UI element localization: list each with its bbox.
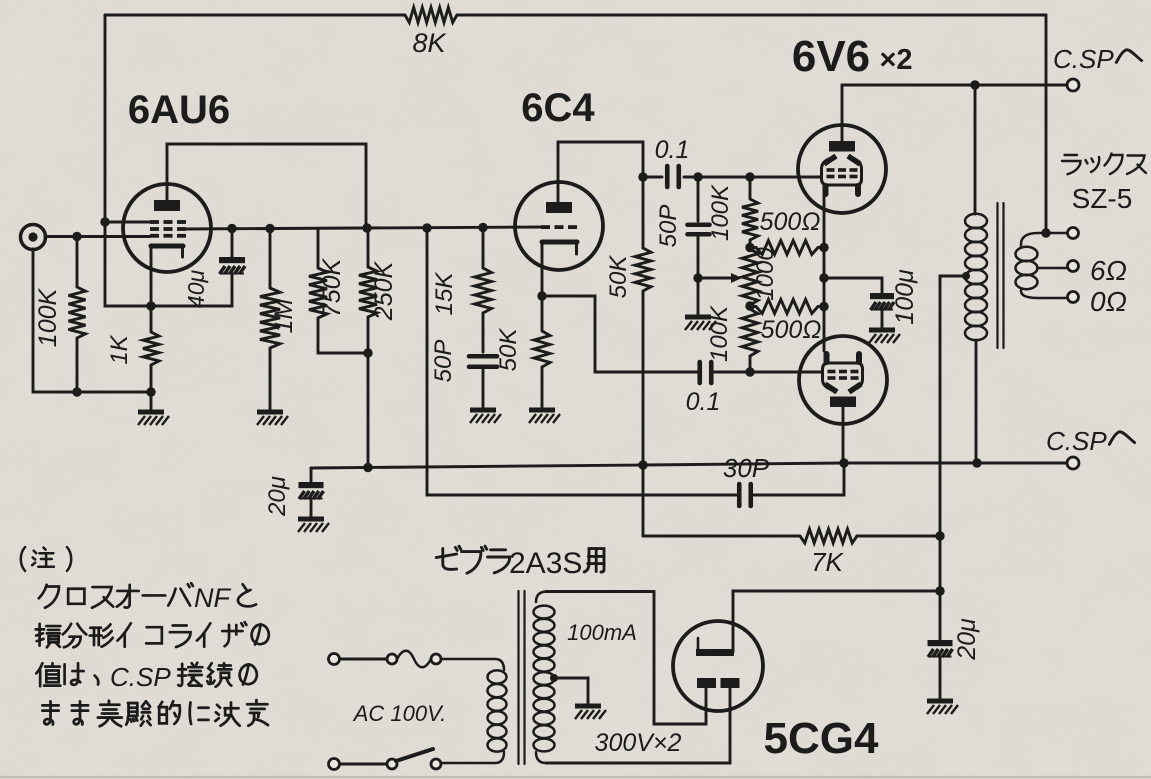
OPT secondary winding — [1016, 233, 1069, 298]
junction cathode/1K/feedback — [146, 301, 155, 310]
terminal AC bottom — [329, 759, 340, 770]
capacitor 50P grid — [688, 177, 710, 278]
label 6AU6 — [128, 88, 230, 132]
capacitor 40u cathode bypass — [219, 228, 245, 274]
tube 6V6 lower V4 envelope — [799, 336, 887, 424]
junction 0.1 branch at 6C4 plate — [638, 172, 647, 181]
junction 15K top on bus — [478, 223, 487, 232]
capacitor 0.1 lower coupling — [700, 362, 821, 383]
ground below center tap — [575, 706, 606, 719]
junction NF divider on bus — [422, 223, 431, 232]
svg-text:1M: 1M — [270, 298, 298, 333]
terminal AC top — [329, 654, 340, 665]
label 100K upper — [707, 184, 734, 241]
wire 6AU6 plate loop up and over — [167, 144, 366, 228]
ground below 20u right — [927, 701, 958, 714]
wire B+ supply line left segment with 20u — [311, 463, 1067, 468]
label 6ohm — [1090, 255, 1127, 286]
ground below 50P — [470, 410, 501, 423]
svg-text:2A3S: 2A3S — [509, 547, 582, 580]
label zebra 2A3S-you — [436, 546, 604, 580]
svg-text:100K: 100K — [706, 305, 733, 362]
resistor 15K — [475, 228, 492, 353]
junction B+ / rectifier output — [935, 586, 944, 595]
junction 100K/500ohm/pot upper node — [745, 243, 754, 252]
capacitor 50P below 15K — [469, 356, 497, 408]
label 50P grid — [655, 205, 682, 248]
svg-text:15K: 15K — [431, 272, 458, 316]
svg-text:7K: 7K — [811, 547, 844, 577]
wire cathode output to lower coupling cap — [542, 296, 698, 372]
label 6C4 — [521, 86, 595, 130]
note line 3 atai wa C.SP setsuzoku no — [36, 662, 257, 692]
svg-text:500Ω: 500Ω — [760, 208, 821, 236]
note line 1 kurosuoba NF to — [39, 583, 256, 613]
label 30P — [723, 453, 770, 483]
junction 6C4 cathode — [537, 291, 546, 300]
svg-text:50P: 50P — [430, 340, 457, 383]
capacitor 30P — [739, 463, 844, 506]
input jack J1 — [21, 225, 46, 250]
PT primary winding — [441, 659, 507, 763]
terminal secondary 6ohm — [1068, 261, 1079, 272]
wire 6V6 upper plate to top — [841, 85, 844, 141]
label 15K — [431, 272, 458, 316]
tube 6V6 upper V3 envelope — [798, 125, 886, 213]
junction input/100K — [72, 232, 81, 241]
wire 5CG4 cathode to B+ — [733, 591, 940, 652]
6AU6 cathode — [151, 246, 183, 257]
capacitor 20u filter right — [928, 640, 953, 699]
tube 6AU6 V1 envelope — [123, 184, 211, 272]
wire main bus 6AU6 to 6C4 grid — [184, 227, 541, 229]
resistor 7K — [643, 529, 940, 543]
resistor 750K — [309, 229, 368, 354]
junction 7K at B+ vertical — [935, 531, 944, 540]
svg-text:0Ω: 0Ω — [1090, 286, 1127, 317]
label 0.1 lower — [686, 388, 721, 416]
tube 5CG4 V5 envelope — [673, 621, 763, 711]
wire 6C4 cathode lead — [541, 244, 544, 296]
wire 6AU6 suppressor to feedback line — [105, 221, 150, 224]
potentiometer wiper arrow — [698, 273, 742, 283]
junction cathode/500ohm lower — [819, 302, 828, 311]
capacitor 100u cathode bypass — [824, 278, 894, 328]
label 100u — [891, 269, 919, 325]
label 0.1 upper — [655, 136, 690, 164]
junction NF takeoff on secondary top — [1041, 228, 1050, 237]
svg-text:30P: 30P — [723, 453, 770, 483]
wire 6C4 plate loop — [558, 142, 643, 202]
terminal secondary top — [1068, 228, 1079, 239]
wire feedback left vertical down to cathode node — [105, 15, 232, 306]
resistor 500ohm lower — [750, 300, 824, 314]
svg-text:SZ-5: SZ-5 — [1072, 183, 1133, 214]
scan edge artifact bottom — [0, 776, 1151, 778]
svg-text:20μ: 20μ — [953, 618, 981, 661]
svg-text:50P: 50P — [655, 205, 682, 248]
wire feedback right vertical down to OPT secondary — [1045, 15, 1048, 233]
label 6V6 x2 — [792, 32, 913, 81]
6AU6 grid rows (suppressor/screen/control) — [150, 220, 186, 238]
label 300Vx2 — [595, 729, 682, 757]
ground below 50K — [529, 410, 560, 423]
OPT primary center tap — [940, 272, 970, 280]
svg-text:NF: NF — [194, 583, 231, 613]
label 250K — [370, 260, 398, 321]
label SZ-5 — [1072, 183, 1133, 214]
svg-text:100K: 100K — [34, 287, 62, 347]
wire AC bottom to switch — [340, 763, 387, 766]
svg-text:300V×2: 300V×2 — [595, 729, 682, 757]
junction 100K/500ohm/pot lower node — [745, 301, 754, 310]
label 1000 — [752, 247, 779, 301]
5CG4 plate bars — [697, 678, 740, 688]
6C4 grid dashes — [541, 225, 577, 229]
capacitor 0.1 upper coupling — [643, 166, 821, 187]
junction supply/OPT primary bottom — [972, 458, 981, 467]
resistor 100K input grid leak — [69, 237, 86, 393]
junction 40u top on bus — [227, 224, 236, 233]
svg-text:500Ω: 500Ω — [761, 316, 822, 344]
label 0ohm — [1090, 286, 1127, 317]
label AC 100V — [352, 701, 447, 726]
wire AC top to fuse — [340, 658, 387, 661]
wire top feedback rail — [105, 14, 1046, 17]
junction suppressor/feedback — [100, 217, 109, 226]
svg-text:5CG4: 5CG4 — [764, 714, 879, 763]
6AU6 plate bar — [154, 200, 180, 211]
note line 4 mama jikkenteki ni kettei — [42, 700, 268, 726]
svg-text:40μ: 40μ — [183, 270, 209, 309]
label 50K plate — [605, 255, 632, 299]
wire 6V6 upper plate rail to C.SP terminal — [842, 84, 1066, 87]
svg-text:×2: ×2 — [879, 44, 912, 76]
label 100K — [34, 287, 62, 347]
junction 750K/250K bottoms — [363, 348, 372, 357]
ground below 20u left — [298, 519, 329, 532]
OPT core — [998, 203, 1004, 348]
label C.SP-he top (katakana he) — [1116, 50, 1141, 63]
label 500ohm upper — [760, 208, 821, 236]
svg-text:C.SP: C.SP — [1053, 44, 1114, 74]
wire jack sleeve down to ground bus — [33, 249, 151, 392]
resistor 100K upper grid — [742, 177, 758, 247]
junction 1M top on bus — [265, 224, 274, 233]
wire 6AU6 cathode lead — [150, 248, 153, 306]
svg-text:100μ: 100μ — [891, 269, 919, 325]
label 750K — [318, 257, 346, 317]
svg-text:6Ω: 6Ω — [1090, 255, 1127, 286]
resistor 8K in feedback rail — [405, 8, 457, 23]
junction supply/50K-7K node — [638, 460, 647, 469]
svg-text:6C4: 6C4 — [521, 86, 595, 130]
label 50K cathode — [495, 328, 522, 372]
resistor 500ohm upper — [750, 241, 824, 255]
junction 100K upper top — [745, 172, 754, 181]
note heading (chuu) — [21, 547, 71, 571]
svg-text:750K: 750K — [318, 257, 346, 317]
label 50P — [430, 340, 457, 383]
wire HT secondary top to left plate — [546, 592, 706, 725]
ground below 1K — [138, 392, 169, 425]
svg-text:8K: 8K — [412, 28, 446, 58]
terminal secondary 0ohm — [1068, 292, 1079, 303]
svg-text:AC 100V.: AC 100V. — [352, 701, 447, 726]
label 20u right — [953, 618, 981, 661]
resistor 1M — [260, 228, 280, 410]
wire NF divider vertical from bus — [427, 228, 736, 495]
6V6 upper internals — [822, 141, 862, 194]
potentiometer 1000 hum balance — [742, 249, 758, 305]
svg-text:0.1: 0.1 — [655, 136, 690, 164]
svg-text:250K: 250K — [370, 260, 398, 321]
label 1K — [106, 334, 133, 364]
OPT primary winding — [965, 85, 987, 463]
tube 6C4 V2 envelope — [515, 182, 603, 270]
svg-text:C.SP: C.SP — [110, 662, 171, 692]
junction 100K bottom — [72, 387, 81, 396]
terminal C.SP top — [1067, 79, 1079, 91]
fuse F1 — [387, 651, 441, 668]
label 100K lower — [706, 305, 733, 362]
label C.SP-he lower arrow — [1109, 432, 1134, 445]
wire input jack to 6AU6 grid — [45, 235, 150, 238]
capacitor 20u filter left — [299, 468, 324, 517]
label 40u — [183, 270, 209, 309]
resistor 50K cathode load — [534, 296, 550, 408]
resistor 1K cathode — [143, 306, 159, 392]
svg-text:20μ: 20μ — [264, 476, 291, 517]
junction 50P bottom / wiper — [693, 273, 702, 282]
label 20u left — [264, 476, 291, 517]
junction 250K bottom on supply line — [363, 463, 372, 472]
label 100mA — [567, 620, 637, 645]
wire HT secondary bottom to right plate — [546, 688, 730, 763]
label 1M — [270, 298, 298, 333]
wire 6V6 lower plate down — [842, 407, 845, 463]
svg-text:1K: 1K — [106, 334, 133, 364]
resistor 100K lower grid — [742, 306, 758, 372]
terminal C.SP lower — [1067, 457, 1079, 469]
ground below 1M — [257, 412, 288, 425]
svg-text:C.SP: C.SP — [1046, 426, 1107, 456]
junction cathode/500ohm upper — [819, 243, 828, 252]
svg-text:50K: 50K — [605, 255, 632, 299]
junction OPT primary top — [970, 80, 979, 89]
wire center tap B+ vertical — [939, 276, 942, 640]
power transformer core — [519, 591, 525, 764]
5CG4 filament cathode — [696, 638, 734, 656]
ground below 100u — [869, 330, 900, 343]
resistor 250K — [359, 228, 377, 467]
svg-text:6AU6: 6AU6 — [128, 88, 230, 132]
6V6 lower internals (mirrored) — [823, 354, 863, 407]
wire cathode line between 6V6s — [823, 192, 826, 351]
6C4 plate bar — [546, 202, 572, 213]
svg-text:6V6: 6V6 — [792, 32, 870, 81]
junction cathode/100u — [819, 273, 828, 282]
label 8K — [412, 28, 446, 58]
note line 2 sekibunkei ikoraiza no — [36, 622, 269, 647]
label 500ohm lower — [761, 316, 822, 344]
label C.SP lower — [1046, 426, 1107, 456]
junction 50P top — [693, 172, 702, 181]
junction 1K bottom / ground — [146, 387, 155, 396]
svg-text:100K: 100K — [707, 184, 734, 241]
svg-text:100mA: 100mA — [567, 620, 637, 645]
junction plate loop / 250K on bus — [362, 223, 371, 232]
ground below 50P grid — [685, 278, 716, 330]
junction 100K lower on grid wire — [745, 367, 754, 376]
PT HT secondary winding — [534, 592, 555, 764]
svg-text:50K: 50K — [495, 328, 522, 372]
label 5CG4 — [764, 714, 879, 763]
resistor 50K plate load — [635, 177, 651, 536]
label 7K — [811, 547, 844, 577]
switch SW1 — [387, 749, 441, 769]
PT secondary center tap — [550, 674, 588, 704]
label C.SP top — [1053, 44, 1114, 74]
label rakkusu (Lux) — [1062, 154, 1146, 175]
6C4 cathode — [542, 242, 577, 254]
svg-text:0.1: 0.1 — [686, 388, 721, 416]
junction supply/6V6 lower plate — [839, 458, 848, 467]
